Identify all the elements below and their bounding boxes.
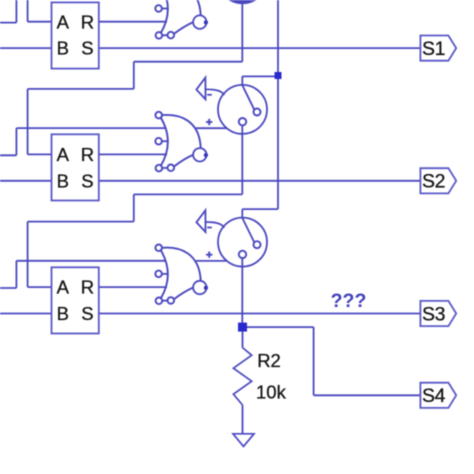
wire S output latch U3 to port S3: [99, 313, 421, 315]
gate bottom curve: [174, 155, 193, 166]
wire gate G3 output to motor M3: [196, 260, 227, 262]
gate input bubble 1: [155, 245, 162, 252]
svg-text:A: A: [57, 277, 70, 298]
gate input bubble 1: [155, 112, 162, 119]
wire gate G2 output to motor M2: [196, 127, 227, 129]
motor body circle: [230, 0, 255, 3]
SR latch U2: [52, 134, 99, 200]
rotation arrow: [196, 210, 205, 232]
wire input to gate G3 top: [0, 261, 166, 288]
NOR gate G3: [155, 245, 208, 305]
svg-text:R: R: [81, 11, 94, 32]
label ???: [331, 290, 367, 312]
wire motor M3 bottom to node: [241, 258, 243, 327]
minus label: [207, 94, 212, 96]
wire motor M1 bottom to latch U2 input A: [28, 0, 243, 154]
gate bottom curve: [174, 288, 193, 299]
gate input bubble 2: [155, 5, 162, 12]
svg-text:A: A: [57, 144, 70, 165]
motor body circle: [218, 85, 267, 134]
motor terminal a: [254, 241, 261, 248]
svg-text:S1: S1: [422, 38, 445, 60]
motor M2: [196, 78, 267, 134]
motor terminal b: [239, 251, 246, 258]
minus label: [207, 227, 212, 229]
motor M1: [196, 0, 260, 3]
wire motor M2 bottom to latch U3 input A: [28, 125, 243, 287]
gate output bubble: [193, 148, 206, 161]
svg-text:10k: 10k: [256, 381, 287, 402]
wire feeder to motor M2 top with junction: [242, 72, 281, 85]
gate left arc: [160, 249, 168, 299]
gate top curve: [162, 0, 200, 15]
port S3: [420, 301, 456, 326]
wire feeder vertical net V+: [277, 0, 279, 209]
svg-text:B: B: [57, 303, 69, 324]
gate output nub: [204, 21, 208, 25]
svg-text:S: S: [81, 303, 93, 324]
wire S output latch U2 to port S2: [99, 180, 421, 182]
resistor R2: [233, 332, 286, 434]
plus label: [206, 119, 212, 125]
svg-text:B: B: [57, 38, 69, 59]
svg-text:S: S: [81, 38, 93, 59]
motor body circle: [218, 218, 267, 267]
svg-text:S4: S4: [422, 385, 446, 407]
wire to latch U1 input A: [28, 0, 52, 22]
motor wiper arm: [242, 85, 254, 110]
svg-text:A: A: [57, 11, 70, 32]
wire input to gate G1 top: [0, 0, 166, 23]
ground: [233, 434, 254, 447]
junction node: [275, 72, 282, 79]
gate output bubble: [193, 281, 206, 294]
wire B input latch U2: [0, 180, 52, 182]
gate output nub: [204, 286, 208, 290]
wire node to S4 branch: [247, 327, 420, 395]
motor terminal b: [239, 118, 246, 125]
wire B input latch U1: [0, 47, 52, 49]
junction node A: [238, 323, 247, 332]
gate bottom curve: [174, 22, 193, 33]
gate top curve: [162, 115, 200, 148]
motor M3: [196, 210, 267, 266]
port S4: [420, 383, 456, 408]
rotation arrow: [196, 78, 205, 100]
svg-text:???: ???: [331, 290, 367, 312]
wire R output latch U2 to gate G2: [99, 153, 167, 155]
port S2: [420, 168, 456, 193]
NOR gate G2: [155, 112, 208, 172]
wire R output latch U1 to gate G1: [99, 21, 167, 23]
SR latch U1: [52, 2, 99, 68]
wire B input latch U3: [0, 313, 52, 315]
wire feeder to motor M3 top: [242, 209, 278, 218]
gate output nub: [204, 153, 208, 157]
svg-text:S3: S3: [422, 303, 445, 325]
gate left arc: [160, 0, 168, 34]
SR latch U3: [52, 267, 99, 333]
gate input bubble 2: [155, 271, 162, 278]
port S1: [420, 36, 456, 61]
gate top curve: [162, 248, 200, 281]
plus label: [206, 252, 212, 258]
motor terminal a: [254, 109, 261, 116]
gate input bubble 4: [168, 297, 175, 304]
gate input bubble 3: [156, 32, 163, 39]
svg-text:S: S: [81, 170, 93, 191]
wire S output latch U1 to port S1: [99, 47, 421, 49]
NOR gate G1: [155, 0, 208, 39]
svg-text:B: B: [57, 170, 69, 191]
svg-text:R: R: [81, 277, 94, 298]
gate output bubble: [193, 15, 206, 28]
gate left arc: [160, 117, 168, 167]
motor wiper arm: [242, 218, 254, 243]
svg-text:R: R: [81, 144, 94, 165]
gate input bubble 2: [155, 138, 162, 145]
gate input bubble 3: [156, 298, 163, 305]
gate input bubble 4: [168, 32, 175, 39]
gate input bubble 3: [156, 165, 163, 172]
svg-text:S2: S2: [422, 171, 445, 193]
svg-text:R2: R2: [257, 350, 281, 371]
gate input bubble 4: [168, 165, 175, 172]
wire input to gate G2 top: [0, 128, 166, 155]
wire R output latch U3 to gate G3: [99, 286, 167, 288]
